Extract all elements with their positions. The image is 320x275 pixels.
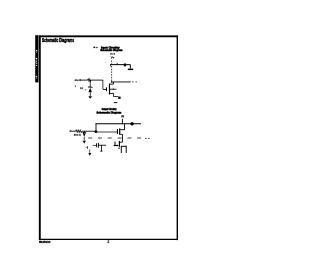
svg-text:(Note 8): (Note 8) <box>110 52 115 55</box>
M3 gate bar lead <box>114 145 119 147</box>
wire: D1 tie <box>85 89 87 91</box>
wire: corner down <box>129 65 131 69</box>
diode D3 <box>83 131 86 140</box>
svg-text:(Note 2): (Note 2) <box>74 134 81 137</box>
transistor Q1 <box>103 80 118 97</box>
node label V- <box>114 102 117 104</box>
svg-text:Schematic Diagram: Schematic Diagram <box>100 48 122 52</box>
wire: input rail <box>71 130 76 132</box>
terminal bar B1 <box>128 69 133 71</box>
current arrow A1 <box>123 63 126 67</box>
wire: V+ stub <box>121 119 123 124</box>
svg-text:Schematic Diagrams: Schematic Diagrams <box>42 38 74 44</box>
wire: top rail H1 <box>110 64 130 66</box>
schematic 1 title lead marks <box>94 47 96 49</box>
input terminal IN <box>80 79 81 80</box>
input terminal dot <box>70 130 71 131</box>
svg-text:2: 2 <box>107 240 109 244</box>
ground triangle left <box>88 153 91 156</box>
figure frame <box>39 35 178 240</box>
node V+ corner mark <box>122 116 124 117</box>
wire: output H2 <box>112 81 131 83</box>
output loop <box>121 146 127 153</box>
part-number side tab <box>35 35 38 82</box>
node junction dot <box>130 122 133 125</box>
small marks <box>85 146 88 149</box>
ground pad G1 <box>118 97 120 99</box>
ground under D1 <box>88 96 92 99</box>
resistor R2 <box>76 130 83 132</box>
transistor M2 <box>93 143 106 151</box>
tick on H1 <box>116 63 118 65</box>
wire: dashed bias net <box>88 137 142 139</box>
wire: top rail <box>95 123 140 125</box>
ground under D3 <box>83 141 86 144</box>
transistor M1 <box>117 124 125 143</box>
ground bar under M2 <box>100 150 102 152</box>
wire: gate lead M1 <box>96 131 117 133</box>
zener diode D1 <box>88 80 92 96</box>
label bias net <box>145 138 146 139</box>
node H2 junction <box>111 81 113 83</box>
wire: H1 left stub <box>109 64 111 66</box>
wire: V+ stem <box>111 61 113 82</box>
resistor R1 <box>88 79 92 81</box>
node junction <box>95 130 98 133</box>
wire: to junction <box>82 130 96 132</box>
wire: input lead <box>81 79 88 81</box>
wire: gate lead <box>91 79 103 81</box>
wire: stem to ground <box>89 149 91 153</box>
transistor M3 <box>115 141 123 149</box>
wire: junction riser <box>95 124 97 132</box>
svg-text:www.national.com: www.national.com <box>39 240 51 244</box>
wire: output dashes <box>132 81 134 83</box>
svg-text:Schematic Diagram: Schematic Diagram <box>97 110 122 114</box>
